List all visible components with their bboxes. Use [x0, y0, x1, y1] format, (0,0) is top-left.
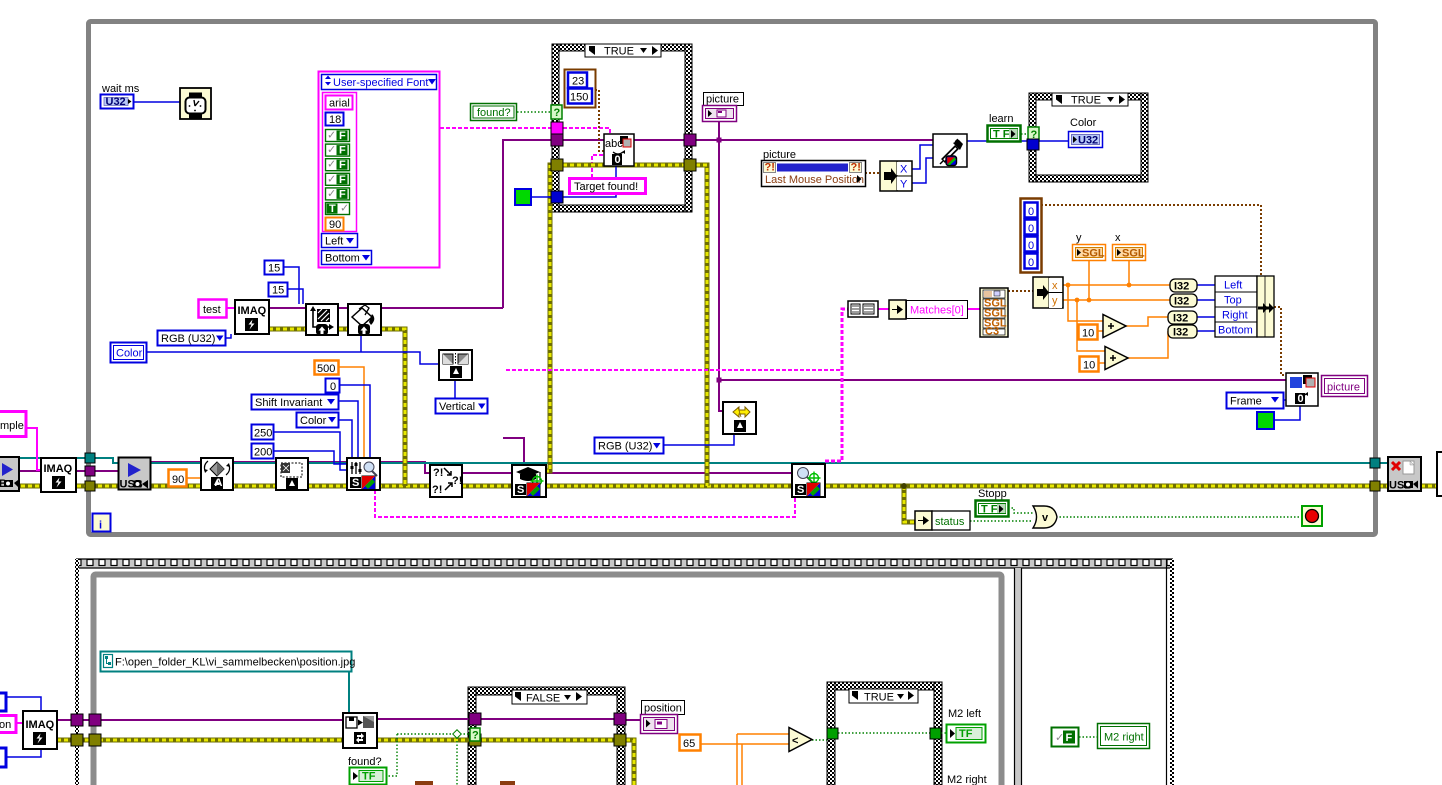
iteration terminal: i — [93, 514, 111, 532]
svg-text:picture: picture — [1327, 382, 1360, 394]
svg-text:Y: Y — [900, 179, 908, 191]
wire: teal session far left — [17, 458, 119, 463]
function: or gate — [1033, 506, 1057, 528]
wire: blue I32s to bundle rows — [1196, 285, 1215, 331]
wire: olive image inside case 1 base — [563, 163, 685, 168]
label: test — [199, 300, 227, 318]
wire: orange 65 to less-than — [701, 743, 789, 745]
wire: purple session usb grab to rotate/roi/setup chain — [150, 462, 792, 473]
junction: green diamond — [453, 730, 461, 738]
svg-text:0: 0 — [1028, 257, 1034, 269]
combo: RGB (U32) 2 — [595, 438, 664, 454]
wire: olive image learn-pattern to case 1 stripes — [545, 165, 550, 471]
svg-text:Color: Color — [1070, 117, 1097, 129]
tunnel: purple case1 left — [551, 134, 563, 146]
function: IMAQ Create — [235, 300, 269, 334]
case 1 selector label "TRUE" — [585, 44, 661, 58]
wire: green dotted to found? indicator — [386, 734, 397, 776]
wire: blue Frame combo to draw node — [1284, 399, 1286, 401]
constant: green color box 2 — [1257, 412, 1274, 429]
svg-text:200: 200 — [254, 447, 272, 459]
svg-text:y: y — [1052, 295, 1058, 307]
case structure 1 "TRUE" (top middle) border — [552, 44, 692, 212]
combo: Vertical — [436, 399, 488, 414]
function: less than — [789, 728, 812, 752]
svg-text:?!: ?! — [433, 467, 443, 479]
boolean constant: F (frame 2) — [1052, 728, 1079, 747]
function: bundle Left/Top/Right/Bottom — [1215, 276, 1274, 337]
indicator: loop stop button — [1302, 506, 1322, 526]
svg-text:T F: T F — [981, 504, 998, 516]
svg-text:F: F — [339, 174, 346, 186]
svg-text:found?: found? — [348, 756, 382, 768]
constant fragment: brown cut boxes at bottom edge — [415, 781, 433, 785]
function: Wait ms watch icon — [180, 88, 211, 119]
svg-text:TF: TF — [362, 771, 376, 783]
svg-text:A: A — [215, 477, 223, 489]
wire: purple image inside case 1 — [563, 139, 685, 141]
wire: magenta matches chain small links — [878, 308, 980, 310]
function: unbundle X Y — [880, 161, 912, 191]
svg-text:on: on — [0, 719, 11, 731]
tunnel: teal on loop1 right — [1370, 458, 1380, 468]
constant: 90 (rotate angle) — [169, 470, 187, 487]
svg-text:Stopp: Stopp — [978, 488, 1007, 500]
wire: magenta matches branch horizontal y370 — [506, 369, 842, 371]
function: unbundle status — [915, 511, 970, 530]
svg-text:I32: I32 — [1174, 296, 1189, 308]
wire: purple session tunnel to usb grab node — [95, 470, 119, 472]
wire: blue green-square to case 1 tunnel — [531, 196, 551, 198]
function: add 2 — [1105, 347, 1128, 370]
svg-text:U32: U32 — [106, 96, 126, 108]
wire: blue unbundle Y to eyedropper — [912, 158, 933, 183]
function: usb grab (left outside, cut) — [0, 457, 19, 491]
svg-text:v: v — [1042, 512, 1049, 524]
indicator: position (picture) — [641, 701, 685, 734]
wire: magenta setup to search error strings — [375, 490, 795, 517]
function: error wires merge (?!) — [430, 465, 462, 497]
svg-text:SGL: SGL — [1122, 248, 1145, 260]
wire: purple image vertical from create node up to case 1 — [503, 140, 551, 308]
tunnel: olive on loop1 left — [85, 481, 95, 491]
wire: magenta dashed string font cluster to case 1 — [440, 127, 551, 129]
tunnel: purple case3 left/right — [469, 713, 481, 725]
label: on (cut "position") — [0, 716, 16, 733]
wire: orange 10b to add 2 — [1098, 362, 1105, 364]
wire: orange y row to I32 — [1063, 299, 1170, 301]
function: IMAQ copy — [41, 458, 76, 492]
constant: 15 a — [265, 261, 284, 275]
wire: brown bundle output to draw node — [1274, 307, 1286, 375]
svg-text:RGB (U32): RGB (U32) — [598, 441, 652, 453]
svg-text:T F: T F — [993, 129, 1010, 141]
wire: brown picture slider to unbundle — [865, 172, 880, 174]
case structure 2 "TRUE" (top right, Color) border — [1029, 93, 1148, 182]
tunnel: olive seq/loop2 left pair — [71, 734, 83, 746]
svg-text:mple: mple — [0, 420, 24, 432]
case structure 4 "TRUE" (bottom right) border — [827, 682, 942, 785]
svg-text:Color: Color — [300, 415, 327, 427]
wire: brown array 0000 to bundle node — [1041, 205, 1261, 277]
svg-text:Matches[0]: Matches[0] — [910, 305, 964, 317]
function: unbundle by name (SGL SGL SGL) — [980, 288, 1008, 338]
junction: olive bus at status branch — [901, 483, 907, 489]
wire: brown 23/150 cluster to abc node — [595, 90, 604, 151]
wire: teal path constant down to save node — [348, 671, 350, 713]
svg-text:18: 18 — [329, 114, 341, 126]
svg-text:wait ms: wait ms — [101, 83, 140, 95]
junction: purple at y140 — [717, 138, 722, 143]
wire: orange x branch to add 1 — [1068, 285, 1103, 321]
wire: olive image bottom bus base — [57, 740, 634, 785]
function: IMAQ learn pattern (cap) — [512, 465, 546, 497]
function: index array [I] — [848, 301, 878, 317]
function: IMAQ cast image (yellow) — [723, 402, 756, 434]
tunnel: blue case1 left bottom — [551, 191, 563, 203]
wire: purple image long horizontal to draw node — [719, 379, 1286, 381]
constant: 500 — [315, 361, 339, 375]
flat sequence left border — [75, 559, 79, 785]
tunnel: olive on loop1 right — [1370, 481, 1380, 491]
wire: blue U32 wait ms to watch — [133, 101, 180, 103]
svg-text:I32: I32 — [1173, 313, 1188, 325]
svg-text:0: 0 — [330, 381, 336, 393]
svg-text:FALSE: FALSE — [526, 693, 560, 705]
wire: blue 15a to transpose node — [284, 267, 299, 304]
function: IMAQ rotate — [201, 458, 233, 490]
wire: blue RGB(U32)2 combo to cast node — [663, 434, 734, 445]
wire: blue Vertical combo to arrange node — [454, 380, 456, 398]
svg-text:TF: TF — [959, 728, 973, 740]
flat sequence right border — [1166, 559, 1168, 785]
svg-text:RGB (U32): RGB (U32) — [161, 333, 215, 345]
svg-text:90: 90 — [329, 219, 341, 231]
tunnel: purple on loop1 left — [85, 466, 95, 476]
selector terminal case2 "?" — [1028, 127, 1039, 141]
svg-text:15: 15 — [268, 263, 280, 275]
wire: blue Shift Invariant combo to setup node — [339, 401, 358, 459]
svg-text:10: 10 — [1082, 328, 1094, 340]
wire: orange 500 to setup node — [338, 367, 364, 459]
combo: Frame — [1227, 393, 1284, 409]
svg-text:?: ? — [472, 730, 479, 742]
control: Color — [111, 343, 147, 363]
svg-text:?!: ?! — [765, 162, 775, 174]
function: draw rectangle on picture — [1286, 373, 1318, 406]
function: IMAQ fill image — [348, 304, 381, 335]
function: IMAQ setup match pattern — [347, 458, 380, 490]
svg-text:?!: ?! — [432, 484, 442, 496]
selector terminal case3 "?" — [470, 728, 480, 741]
svg-text:150: 150 — [570, 92, 588, 104]
indicator: picture (right) — [1322, 376, 1368, 397]
constant: 65 — [680, 735, 701, 751]
wire: purple image create node to vertical — [269, 307, 503, 309]
wire: orange 10a to add 1 — [1097, 330, 1103, 332]
control terminal: U32 wait ms — [101, 95, 134, 109]
wire: olive image create-transpose-fill chain stripes — [269, 329, 405, 486]
control: Stopp (TF) — [976, 488, 1009, 517]
wire: olive image bottom bus stripes — [57, 740, 634, 785]
string constant: Target found! — [570, 179, 646, 194]
wire: orange x row to I32 — [1063, 284, 1170, 286]
function: Draw Text at Point (abc) — [604, 134, 634, 166]
cluster: font inner frame — [323, 93, 357, 232]
svg-text:I32: I32 — [1174, 281, 1189, 293]
svg-text:Color: Color — [116, 348, 143, 360]
wire: purple session left of loop — [19, 470, 85, 472]
svg-text:TRUE: TRUE — [864, 692, 894, 704]
wire: blue RGB(U32) combo to create node — [225, 334, 231, 338]
constant fragment: blue cut box 2 — [0, 748, 6, 767]
indicator: picture (top) label — [704, 93, 744, 106]
svg-text:picture: picture — [706, 94, 739, 106]
svg-text:Top: Top — [1224, 295, 1242, 307]
svg-text:Bottom: Bottom — [1218, 325, 1253, 337]
wire: blue 250 to setup node — [273, 432, 347, 470]
combo: Color (match mode) — [297, 413, 339, 428]
function: save image to file (floppy) — [343, 713, 377, 748]
wire: blue eyedropper to case 2 — [967, 140, 1029, 142]
numeric constant: 90 (font angle) — [326, 218, 344, 231]
indicator: picture (top) terminal — [703, 106, 737, 122]
wire: blue inside case 1 to abc node — [563, 166, 616, 197]
function: IMAQ extract ROI — [276, 458, 308, 490]
array constant: 0 0 0 0 — [1021, 199, 1042, 273]
wire: olive image bus stripes — [0, 485, 1442, 488]
wire: green dotted status to or gate — [970, 520, 1033, 522]
tunnel: magenta case1 left string — [551, 122, 563, 134]
svg-text:0: 0 — [1028, 206, 1034, 218]
control: learn (TF) — [988, 113, 1021, 142]
control: picture slider (Last Mouse Position) — [762, 149, 866, 187]
tunnel: teal on loop1 left — [85, 453, 95, 463]
svg-text:C3: C3 — [985, 326, 999, 338]
svg-text:23: 23 — [572, 76, 584, 88]
svg-text:S: S — [352, 477, 359, 489]
wire: purple session bottom bus — [57, 719, 641, 720]
svg-text:Target found!: Target found! — [574, 181, 638, 193]
svg-text:picture: picture — [763, 149, 796, 161]
function: usb close (right outside) — [1388, 457, 1421, 492]
combo: User-specified Font — [322, 75, 437, 90]
coercion dots: I32 x4 — [1168, 279, 1197, 339]
wire: olive image case 1 down to bus base — [696, 165, 707, 486]
svg-text:Left: Left — [325, 236, 343, 248]
wire: olive image create-transpose-fill chain base — [269, 329, 405, 486]
control: found? — [471, 104, 517, 121]
tunnel: blue case2 left — [1027, 139, 1039, 150]
wire: purple image branch to learn-pattern node — [503, 438, 524, 470]
svg-text:?: ? — [554, 107, 561, 119]
svg-text:status: status — [935, 516, 965, 528]
wire: orange y branch to add 2 — [1077, 300, 1105, 351]
wire: blue inside case 2 to Color U32 — [1039, 140, 1068, 142]
svg-text:F: F — [339, 159, 346, 171]
tunnel: purple seq/loop2 left pair — [71, 714, 83, 726]
svg-text:TRUE: TRUE — [1071, 95, 1101, 107]
svg-text:learn: learn — [989, 113, 1013, 125]
wire: blue Color combo to setup node — [339, 420, 352, 459]
constant: 200 — [252, 444, 274, 459]
function: usb grab acquire (play) — [119, 458, 151, 491]
label: Matches[0] — [907, 301, 968, 319]
svg-text:Vertical: Vertical — [439, 401, 475, 413]
constant fragment: blue cut box 1 — [0, 693, 6, 711]
constant: 250 — [252, 425, 274, 440]
tunnel: olive case1 right — [684, 159, 696, 171]
boolean constants: F stack — [326, 130, 350, 216]
svg-text:?!: ?! — [851, 162, 861, 174]
svg-text:0: 0 — [1298, 393, 1304, 405]
wire: olive image inside case 1 stripes — [563, 164, 685, 167]
case 4 selector label "TRUE" — [849, 689, 918, 704]
function: to-variant arrow box — [889, 300, 906, 319]
wire: blue 200 to setup node — [273, 451, 347, 464]
wire: brown unbundle-by-name to xy unbundle — [1008, 290, 1033, 292]
wire: orange to less-than upper input — [737, 733, 789, 735]
svg-text:F: F — [339, 130, 346, 142]
constant: 10 (b) — [1080, 357, 1099, 372]
svg-text:found?: found? — [477, 107, 511, 119]
svg-text:F:\open_folder_KL\vi_sammelbec: F:\open_folder_KL\vi_sammelbecken\positi… — [115, 657, 355, 669]
wire: olive image case 1 down to bus stripes — [696, 165, 707, 486]
tunnel: olive case3 left/right — [469, 734, 481, 746]
wire: olive image down to status node stripes — [904, 486, 915, 522]
svg-text:M2 left: M2 left — [948, 708, 981, 720]
constant: 10 (a) — [1079, 325, 1098, 340]
svg-text:✓: ✓ — [327, 188, 336, 200]
svg-text:?!: ?! — [452, 475, 462, 487]
control: x SGL — [1113, 232, 1146, 261]
svg-text:0: 0 — [1028, 240, 1034, 252]
function: IMAQ create (bottom, cut) — [23, 711, 57, 749]
wire: orange vertical branches — [737, 734, 742, 785]
case 2 selector label "TRUE" — [1052, 93, 1128, 107]
svg-text:T: T — [329, 203, 336, 215]
svg-text:90: 90 — [172, 474, 184, 486]
while loop 1 border (top main loop) — [89, 22, 1376, 535]
svg-text:F: F — [1066, 732, 1073, 744]
svg-text:x: x — [1052, 280, 1058, 292]
svg-text:Right: Right — [1222, 310, 1248, 322]
svg-text:position: position — [644, 703, 682, 715]
svg-text:M2 right: M2 right — [947, 774, 987, 785]
wire: orange SGL y down — [1088, 261, 1090, 300]
tunnel: olive case1 left — [551, 159, 563, 171]
indicator: found? (TF) — [348, 756, 387, 785]
combo: RGB (U32) — [158, 331, 226, 346]
svg-text:10: 10 — [1083, 360, 1095, 372]
wire: magenta dashed inside case to abc node — [563, 128, 610, 134]
wire: orange add1 out to I32 Right — [1125, 317, 1168, 326]
svg-text:✓: ✓ — [327, 159, 336, 171]
svg-text:<: < — [792, 735, 798, 747]
combo: Left — [322, 234, 358, 248]
wire: olive image bus base — [0, 484, 1442, 489]
svg-text:IMAQ: IMAQ — [26, 719, 55, 731]
function: get color (eyedropper) — [933, 134, 967, 167]
wire: magenta position label to IMAQ bottom node — [16, 722, 23, 724]
function: IMAQ symmetry (arrange) — [439, 350, 472, 380]
svg-text:✓: ✓ — [1055, 732, 1064, 744]
indicator: M2 left (TF) — [947, 708, 986, 743]
svg-text:500: 500 — [317, 363, 335, 375]
svg-text:Frame: Frame — [1230, 396, 1262, 408]
wire: green dotted F constant to M2 right — [1079, 736, 1097, 738]
case structure 3 "FALSE" (bottom) border — [468, 687, 625, 785]
wire: teal session main bus — [150, 462, 1389, 464]
svg-text:U32: U32 — [1078, 135, 1098, 147]
svg-text:arial: arial — [329, 98, 350, 110]
path constant: F:\open_folder_KL\vi_sammelbecken\position.jpg — [101, 652, 356, 672]
svg-text:i: i — [99, 520, 102, 532]
wire: magenta matches array from search node up and left — [825, 309, 848, 461]
wire: green dotted Stopp to or gate — [1008, 508, 1033, 513]
wire: blue green-square2 to draw node — [1274, 406, 1300, 420]
selector terminal case1 "?" — [551, 105, 562, 119]
wire: purple image picture indicator vertical — [719, 121, 724, 411]
combo: Bottom — [322, 251, 372, 265]
wire: olive image down to status node base — [904, 486, 915, 522]
svg-text:TRUE: TRUE — [604, 46, 634, 58]
flat sequence frame divider — [1015, 568, 1021, 785]
svg-text:x: x — [1115, 232, 1121, 244]
svg-text:✓: ✓ — [327, 173, 336, 185]
constant: 0 — [326, 379, 340, 393]
wire: magenta sample label wavy — [26, 428, 41, 470]
indicator: M2 right — [1098, 724, 1150, 749]
svg-text:250: 250 — [254, 428, 272, 440]
wire: green dotted branch down — [456, 734, 458, 785]
wire: orange 90 to rotate node — [187, 477, 201, 479]
wire: purple image case 1 to eyedropper — [696, 139, 933, 141]
cluster constant: font settings outer frame — [319, 72, 440, 268]
wire: olive image learn-pattern to case 1 base — [545, 165, 551, 471]
wire: orange SGL x down — [1128, 261, 1130, 285]
wire: blue Color control to fill node and arrange node — [146, 335, 439, 364]
svg-text:X: X — [900, 164, 908, 176]
constant: green color box — [515, 189, 531, 205]
svg-text:✓: ✓ — [327, 144, 336, 156]
svg-text:I32: I32 — [1173, 327, 1188, 339]
wire: magenta Target found! to abc node — [592, 155, 604, 178]
svg-text:✓: ✓ — [340, 203, 349, 215]
node fragment: white box right edge — [1437, 452, 1442, 496]
combo: Shift Invariant — [252, 395, 339, 410]
function: IMAQ search color pattern — [792, 464, 825, 497]
wire: blue unbundle X to eyedropper — [912, 145, 933, 169]
svg-text:F: F — [339, 145, 346, 157]
indicator: Color U32 — [1069, 132, 1103, 148]
svg-text:Left: Left — [1224, 280, 1242, 292]
function: add 1 — [1103, 315, 1126, 338]
wire: green dotted found?/save to case selector — [397, 733, 470, 735]
flat sequence structure border (bottom) top strip — [76, 559, 1173, 568]
junction: orange dots — [1066, 283, 1071, 288]
svg-text:Shift Invariant: Shift Invariant — [255, 397, 322, 409]
wire: blue 0 to setup node — [339, 385, 370, 459]
wire: magenta test label to create node — [226, 307, 235, 309]
case 3 selector label "FALSE" — [512, 690, 587, 705]
function: IMAQ transpose — [306, 304, 338, 335]
constant: 15 b — [269, 283, 288, 297]
wire: green dotted found? to case selector — [517, 111, 551, 113]
wire: green dotted or gate to stop terminal — [1056, 516, 1303, 518]
tunnel: green case4 left/right — [827, 728, 838, 739]
svg-text:User-specified Font: User-specified Font — [333, 77, 428, 89]
